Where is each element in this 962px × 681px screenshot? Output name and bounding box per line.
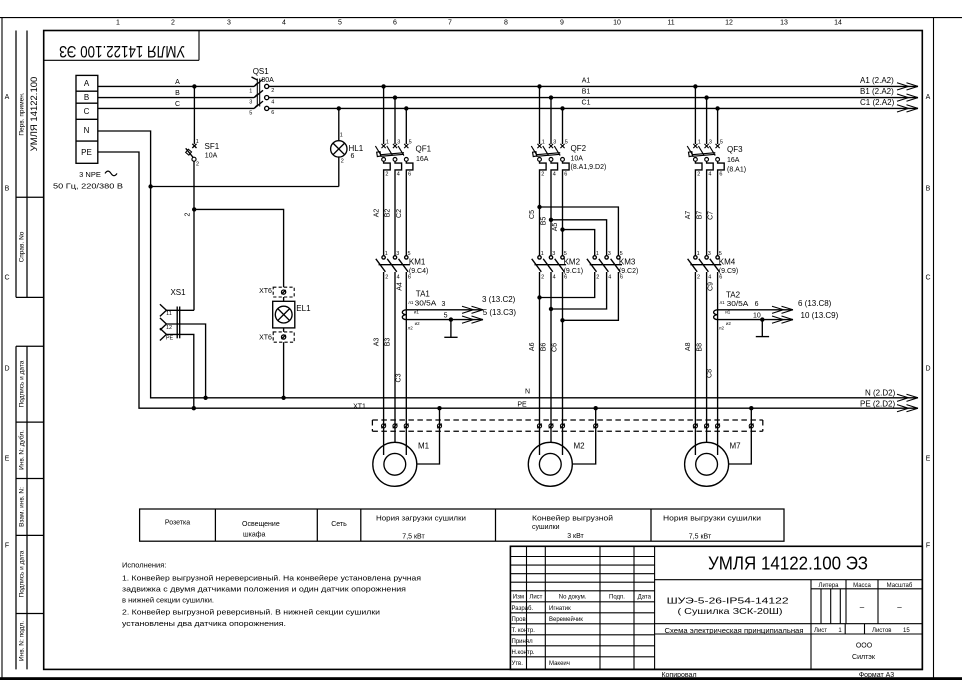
- svg-text:6: 6: [564, 274, 567, 280]
- svg-text:6: 6: [564, 172, 567, 178]
- terminal strip XT1: [372, 420, 762, 431]
- svg-text:Перв. примен.: Перв. примен.: [19, 92, 26, 135]
- svg-text:ШУЭ-5-26-IP54-14122: ШУЭ-5-26-IP54-14122: [667, 596, 789, 606]
- svg-text:4: 4: [553, 274, 556, 280]
- svg-text:1: 1: [116, 20, 120, 27]
- svg-text:УМЛЯ 14122.100 ЭЗ: УМЛЯ 14122.100 ЭЗ: [59, 42, 185, 60]
- svg-text:A6: A6: [529, 342, 536, 351]
- svg-text:Инв. N: подл.: Инв. N: подл.: [19, 621, 26, 661]
- svg-text:5: 5: [620, 251, 623, 257]
- svg-text:F: F: [5, 543, 9, 550]
- svg-text:Розетка: Розетка: [165, 520, 190, 527]
- svg-text:Силтэк: Силтэк: [852, 654, 876, 661]
- svg-text:C1 (2.A2): C1 (2.A2): [860, 98, 895, 107]
- svg-text:C1: C1: [582, 99, 591, 106]
- svg-text:E: E: [5, 456, 10, 463]
- svg-text:A7: A7: [685, 211, 692, 220]
- svg-text:10A: 10A: [571, 155, 584, 162]
- svg-text:A: A: [5, 94, 10, 101]
- svg-text:B: B: [5, 186, 10, 193]
- svg-text:C6: C6: [552, 343, 559, 352]
- svg-text:Инв. N: дубл.: Инв. N: дубл.: [18, 430, 26, 470]
- svg-text:11: 11: [166, 311, 172, 317]
- svg-text:5: 5: [444, 312, 448, 319]
- svg-text:A: A: [84, 79, 90, 88]
- wire QF1 to KM1: [384, 177, 407, 256]
- svg-text:2: 2: [185, 212, 192, 216]
- svg-text:( Сушилка ЗСК-20Ш): ( Сушилка ЗСК-20Ш): [678, 606, 783, 616]
- junction M2 PE tap: [594, 406, 598, 410]
- svg-text:Нория выгрузки сушилки: Нория выгрузки сушилки: [663, 516, 761, 523]
- svg-text:A: A: [926, 94, 931, 101]
- svg-text:Масса: Масса: [853, 583, 871, 589]
- svg-text:Исполнения:: Исполнения:: [122, 561, 166, 570]
- svg-text:KM3: KM3: [619, 258, 636, 267]
- svg-text:D: D: [4, 366, 9, 373]
- svg-text:12: 12: [166, 325, 172, 331]
- svg-text:XS1: XS1: [170, 288, 186, 297]
- svg-text:2: 2: [697, 172, 700, 178]
- svg-text:Подпись и дата: Подпись и дата: [19, 550, 26, 597]
- lamp HL1: [331, 108, 347, 186]
- terminal XT6 top: [273, 287, 294, 297]
- svg-text:Освещение: Освещение: [242, 521, 280, 528]
- svg-text:A8: A8: [685, 342, 692, 351]
- circuit breaker QF2: [531, 86, 569, 177]
- svg-text:30/5A: 30/5A: [727, 301, 749, 308]
- svg-text:2: 2: [541, 172, 544, 178]
- svg-text:3: 3: [396, 251, 399, 257]
- svg-text:3: 3: [608, 251, 611, 257]
- lamp EL1: [273, 297, 295, 332]
- motor M2: [528, 408, 595, 486]
- current transformer TA2: [714, 310, 793, 320]
- svg-text:–: –: [897, 603, 902, 612]
- junction QF2 taps on buses A1 B1 C1: [537, 84, 564, 110]
- junction XS1 pin12 on N line: [203, 396, 207, 400]
- svg-text:7: 7: [448, 20, 452, 27]
- svg-text:6 (13.C8): 6 (13.C8): [798, 299, 832, 308]
- svg-text:6: 6: [271, 110, 274, 116]
- left margin strip: [16, 31, 44, 670]
- wire bus A left: [98, 85, 254, 87]
- svg-text:SF1: SF1: [205, 142, 220, 151]
- svg-text:–: –: [860, 603, 865, 612]
- svg-text:B1: B1: [582, 89, 591, 96]
- svg-text:6: 6: [719, 274, 722, 280]
- svg-text:TA1: TA1: [416, 290, 431, 299]
- svg-text:3: 3: [227, 20, 231, 27]
- svg-text:(8.A1): (8.A1): [727, 166, 746, 173]
- svg-text:M7: M7: [730, 441, 742, 450]
- svg-text:5: 5: [719, 251, 722, 257]
- wire bus C right of QS1: [269, 107, 918, 109]
- breaker SF1: [186, 86, 197, 209]
- svg-text:1. Конвейер выгрузной нереверс: 1. Конвейер выгрузной нереверсивный. На …: [122, 574, 421, 583]
- svg-text:3: 3: [249, 100, 252, 106]
- svg-text:10: 10: [753, 313, 761, 320]
- svg-text:3 NPE: 3 NPE: [79, 170, 101, 179]
- svg-text:Конвейер выгрузной: Конвейер выгрузной: [532, 515, 613, 523]
- arrows bus right edge: [897, 83, 918, 112]
- svg-text:B8: B8: [696, 343, 703, 352]
- svg-text:1: 1: [386, 140, 389, 146]
- wire QF2 to KM3 crossover: [540, 207, 619, 256]
- svg-text:2: 2: [171, 20, 175, 27]
- svg-text:KM4: KM4: [719, 258, 736, 267]
- svg-text:QS1: QS1: [253, 67, 270, 76]
- svg-text:PE: PE: [81, 148, 92, 157]
- svg-text:PE: PE: [517, 402, 527, 409]
- svg-text:C2: C2: [396, 209, 403, 218]
- svg-text:C9: C9: [707, 282, 714, 291]
- junction XS1 PE on PE line: [192, 406, 196, 410]
- svg-text:Т. контр.: Т. контр.: [512, 628, 536, 634]
- svg-text:QF3: QF3: [727, 145, 743, 154]
- wire N: [98, 131, 918, 398]
- svg-text:4: 4: [271, 99, 274, 105]
- svg-text:2: 2: [596, 274, 599, 280]
- svg-text:6: 6: [408, 172, 411, 178]
- motor M7: [685, 408, 752, 486]
- svg-text:л2: л2: [719, 326, 725, 331]
- wire number labels rotated: [373, 209, 714, 383]
- svg-text:3 (13.C2): 3 (13.C2): [482, 295, 516, 304]
- svg-text:PE: PE: [166, 335, 174, 341]
- svg-text:C: C: [925, 275, 930, 282]
- svg-text:1: 1: [596, 251, 599, 257]
- svg-text:5: 5: [565, 140, 568, 146]
- svg-text:Утв.: Утв.: [512, 661, 524, 667]
- svg-text:5: 5: [338, 20, 342, 27]
- legend table: [140, 509, 784, 541]
- svg-text:задвижка с двумя датчиками пол: задвижка с двумя датчиками положения и о…: [122, 585, 406, 594]
- svg-text:4: 4: [708, 172, 711, 178]
- svg-text:A1: A1: [582, 77, 591, 84]
- wire PE: [98, 152, 918, 408]
- junction EL1 on N line: [281, 396, 285, 400]
- junction wires C5 B5 A5 branch to KM3: [537, 205, 564, 232]
- svg-text:Разраб.: Разраб.: [512, 606, 534, 612]
- svg-text:3: 3: [709, 140, 712, 146]
- junction HL1 tap on phase C: [337, 106, 341, 110]
- svg-text:и1: и1: [414, 310, 420, 315]
- junction M7 PE tap: [749, 406, 753, 410]
- junction wire 2 branch to EL1: [192, 207, 196, 211]
- svg-text:Принял: Принял: [512, 639, 534, 645]
- svg-text:7,5 кВт: 7,5 кВт: [689, 534, 712, 541]
- svg-text:Сеть: Сеть: [331, 521, 347, 528]
- svg-text:Макеич: Макеич: [549, 661, 570, 667]
- pin number labels QF KM: [385, 140, 723, 281]
- svg-text:XT6: XT6: [259, 335, 272, 342]
- svg-text:F: F: [926, 543, 930, 550]
- svg-text:Лист: Лист: [529, 595, 542, 601]
- svg-text:15: 15: [903, 628, 910, 634]
- ground TA1 secondary: [444, 320, 457, 338]
- arrows N PE right edge: [897, 394, 918, 412]
- svg-text:N: N: [84, 126, 90, 135]
- svg-text:установлены два датчика опорож: установлены два датчика опорожнения.: [122, 619, 286, 628]
- svg-text:3: 3: [708, 251, 711, 257]
- svg-text:B5: B5: [541, 217, 548, 226]
- svg-text:Схема электрическая принципиал: Схема электрическая принципиальная: [665, 628, 804, 635]
- svg-text:C: C: [84, 107, 90, 116]
- svg-text:Изм: Изм: [513, 595, 524, 601]
- svg-text:6: 6: [351, 153, 355, 160]
- svg-text:N (2.D2): N (2.D2): [865, 389, 896, 398]
- svg-text:УМЛЯ 14122.100: УМЛЯ 14122.100: [29, 77, 40, 152]
- svg-text:сушилки: сушилки: [532, 524, 560, 531]
- svg-text:11: 11: [667, 20, 674, 27]
- svg-text:B: B: [84, 93, 89, 102]
- terminal XT6 bottom: [273, 332, 294, 342]
- svg-text:D: D: [925, 366, 930, 373]
- svg-text:Справ. No: Справ. No: [19, 231, 26, 262]
- svg-text:M1: M1: [418, 441, 430, 450]
- svg-text:Веремейчик: Веремейчик: [549, 616, 583, 623]
- wire bus B left: [98, 97, 254, 99]
- svg-text:Подпись и дата: Подпись и дата: [19, 360, 26, 407]
- svg-text:4: 4: [397, 172, 400, 178]
- svg-text:2: 2: [697, 274, 700, 280]
- title block: [510, 546, 922, 669]
- svg-text:16A: 16A: [727, 157, 740, 164]
- svg-text:Литера: Литера: [819, 583, 840, 589]
- svg-text:5: 5: [720, 140, 723, 146]
- svg-text:3: 3: [553, 140, 556, 146]
- circuit breaker QF3: [687, 86, 724, 177]
- svg-text:B2: B2: [385, 209, 392, 218]
- svg-text:л1: л1: [408, 300, 414, 305]
- svg-text:3: 3: [441, 301, 445, 308]
- svg-text:4: 4: [282, 20, 286, 27]
- svg-text:B: B: [926, 186, 931, 193]
- svg-text:1: 1: [542, 140, 545, 146]
- svg-text:1: 1: [697, 251, 700, 257]
- top inverted title box: [44, 31, 199, 61]
- junction SF1 tap on phase A: [192, 84, 196, 88]
- TA terminal labels: [408, 300, 732, 331]
- svg-text:л2: л2: [408, 326, 414, 331]
- svg-text:C8: C8: [707, 369, 714, 378]
- svg-text:5: 5: [249, 110, 252, 116]
- svg-text:Игнатик: Игнатик: [549, 606, 571, 612]
- svg-text:XT6: XT6: [259, 288, 272, 295]
- contactor KM2: [532, 256, 566, 420]
- svg-text:6: 6: [755, 301, 759, 308]
- svg-text:2: 2: [271, 88, 274, 94]
- svg-text:M2: M2: [574, 441, 586, 450]
- svg-text:2. Конвейер выгрузной реверсив: 2. Конвейер выгрузной реверсивный. В ниж…: [122, 608, 380, 617]
- svg-text:A1 (2.A2): A1 (2.A2): [860, 76, 894, 85]
- svg-text:C: C: [4, 275, 9, 282]
- ruler letters left: [4, 94, 9, 550]
- svg-text:Масштаб: Масштаб: [887, 583, 913, 589]
- svg-text:B1 (2.A2): B1 (2.A2): [860, 87, 894, 96]
- svg-text:3: 3: [552, 251, 555, 257]
- circuit breaker QF1: [375, 86, 413, 177]
- svg-text:Дата: Дата: [638, 595, 652, 601]
- svg-text:A4: A4: [396, 282, 403, 291]
- svg-text:C5: C5: [529, 210, 536, 219]
- wire EL1 to N: [283, 342, 285, 398]
- svg-text:4: 4: [397, 274, 400, 280]
- svg-text:4: 4: [708, 274, 711, 280]
- svg-text:4: 4: [553, 172, 556, 178]
- junction QF3 taps on buses A1 B1 C1: [693, 84, 720, 110]
- svg-text:5 (13.C3): 5 (13.C3): [483, 308, 517, 317]
- svg-text:8: 8: [504, 20, 508, 27]
- junction M1 PE tap: [437, 406, 441, 410]
- svg-text:1: 1: [541, 251, 544, 257]
- wire 2 from SF1 to XS1 and EL1: [194, 209, 283, 287]
- wire QF2 to KM2: [540, 177, 563, 256]
- svg-text:9: 9: [560, 20, 564, 27]
- svg-text:и1: и1: [725, 310, 731, 315]
- svg-text:N: N: [525, 388, 530, 395]
- svg-text:E: E: [926, 456, 931, 463]
- contactor KM4: [688, 256, 722, 420]
- junction TA2 secondary to ground: [760, 317, 764, 321]
- junction TA1 secondary to ground: [449, 317, 453, 321]
- svg-text:(8.A1,9.D2): (8.A1,9.D2): [571, 164, 607, 171]
- svg-text:EL1: EL1: [296, 304, 311, 313]
- wire bus A right of QS1: [269, 85, 918, 87]
- terminal circles XT1: [381, 424, 753, 429]
- svg-text:A5: A5: [552, 223, 559, 232]
- texts left area: [53, 67, 591, 342]
- svg-text:Лист: Лист: [814, 628, 827, 634]
- svg-text:TA2: TA2: [726, 291, 741, 300]
- contactor KM3: [540, 256, 623, 321]
- svg-text:12: 12: [725, 20, 733, 27]
- svg-text:и2: и2: [726, 321, 732, 326]
- svg-text:4: 4: [608, 274, 611, 280]
- wire XS1 pin12 to N: [166, 324, 205, 398]
- svg-text:1: 1: [340, 132, 343, 138]
- ground TA2 secondary: [756, 320, 769, 337]
- svg-text:Формат А3: Формат А3: [859, 672, 894, 679]
- disconnect switch QS1: [252, 77, 269, 111]
- svg-text:2: 2: [385, 274, 388, 280]
- svg-text:Листов: Листов: [872, 628, 892, 634]
- svg-text:80A: 80A: [261, 77, 274, 84]
- svg-text:B3: B3: [385, 338, 392, 347]
- component labels main: [353, 76, 895, 450]
- svg-text:B6: B6: [541, 343, 548, 352]
- svg-text:1: 1: [249, 88, 252, 94]
- ruler letters right: [925, 94, 930, 550]
- svg-text:6: 6: [719, 172, 722, 178]
- notes text: [122, 561, 421, 629]
- svg-text:QF1: QF1: [416, 145, 432, 154]
- svg-text:2: 2: [385, 172, 388, 178]
- svg-text:30/5A: 30/5A: [415, 300, 437, 307]
- svg-text:XT1: XT1: [353, 403, 366, 410]
- svg-text:B7: B7: [696, 211, 703, 220]
- svg-text:KM1: KM1: [409, 258, 426, 267]
- svg-text:10: 10: [613, 20, 621, 27]
- svg-text:KM2: KM2: [564, 258, 581, 267]
- svg-text:16A: 16A: [416, 156, 429, 163]
- wire XS1 PE to PE: [166, 334, 193, 408]
- junction KM2 KM3 outputs merge A6 B6 C6: [537, 295, 564, 322]
- svg-text:C3: C3: [395, 373, 402, 382]
- svg-text:13: 13: [780, 20, 788, 27]
- ruler numbers top: [116, 20, 842, 27]
- wire bus C left: [98, 107, 254, 109]
- svg-text:2: 2: [341, 159, 344, 165]
- svg-text:1: 1: [196, 139, 199, 145]
- junction HL1 return on N wire: [148, 184, 152, 188]
- svg-text:10 (13.C9): 10 (13.C9): [801, 311, 839, 320]
- svg-text:ООО: ООО: [856, 643, 873, 650]
- svg-text:10A: 10A: [205, 153, 218, 160]
- svg-text:Пров.: Пров.: [512, 617, 528, 623]
- svg-text:6: 6: [408, 274, 411, 280]
- motor M1: [373, 408, 440, 486]
- svg-text:шкафа: шкафа: [243, 531, 265, 538]
- svg-text:1: 1: [698, 140, 701, 146]
- svg-text:(9.C4): (9.C4): [409, 268, 428, 275]
- svg-text:Н.контр.: Н.контр.: [512, 650, 535, 656]
- svg-text:HL1: HL1: [349, 144, 364, 153]
- svg-text:3 кВт: 3 кВт: [567, 533, 584, 540]
- svg-text:14: 14: [834, 20, 842, 27]
- wire bus B right of QS1: [269, 97, 918, 99]
- svg-text:6: 6: [620, 274, 623, 280]
- svg-text:PE (2.D2): PE (2.D2): [860, 400, 895, 409]
- svg-text:5: 5: [564, 251, 567, 257]
- socket XS1: [160, 304, 194, 340]
- svg-text:2: 2: [196, 162, 199, 168]
- junction QF1 taps on buses A1 B1 C1: [381, 84, 408, 110]
- svg-text:УМЛЯ 14122.100 ЭЗ: УМЛЯ 14122.100 ЭЗ: [708, 553, 868, 574]
- svg-text:и2: и2: [415, 321, 421, 326]
- svg-text:1: 1: [385, 251, 388, 257]
- svg-text:5: 5: [408, 251, 411, 257]
- svg-text:C7: C7: [707, 211, 714, 220]
- svg-text:A: A: [175, 79, 180, 86]
- svg-text:QF2: QF2: [571, 144, 587, 153]
- svg-text:A3: A3: [373, 338, 380, 347]
- svg-text:B: B: [175, 90, 180, 97]
- arrows TA2 secondary: [772, 306, 793, 323]
- svg-text:C: C: [175, 101, 180, 108]
- arrows TA1 secondary: [462, 306, 483, 323]
- svg-text:Нория загрузки сушилки: Нория загрузки сушилки: [376, 516, 466, 523]
- svg-text:7,5 кВт: 7,5 кВт: [402, 534, 425, 541]
- svg-text:Копировал: Копировал: [661, 672, 696, 679]
- input terminal block A B C N PE: [76, 75, 98, 163]
- wire QF3 to KM4: [695, 177, 717, 256]
- svg-text:50 Гц, 220/380 В: 50 Гц, 220/380 В: [53, 181, 123, 190]
- svg-text:2: 2: [541, 274, 544, 280]
- svg-text:3: 3: [397, 140, 400, 146]
- svg-text:Подп.: Подп.: [609, 595, 625, 601]
- svg-text:6: 6: [393, 20, 397, 27]
- current transformer TA1: [402, 310, 483, 320]
- svg-text:в нижней секции сушилки.: в нижней секции сушилки.: [122, 596, 214, 605]
- svg-text:A2: A2: [373, 209, 380, 218]
- svg-text:5: 5: [409, 140, 412, 146]
- wire HL1 return to N: [151, 186, 339, 188]
- svg-text:No докум.: No докум.: [559, 595, 587, 601]
- svg-text:л1: л1: [720, 300, 726, 305]
- svg-text:Взам. инв. N:: Взам. инв. N:: [19, 487, 26, 527]
- contactor KM1: [376, 256, 410, 420]
